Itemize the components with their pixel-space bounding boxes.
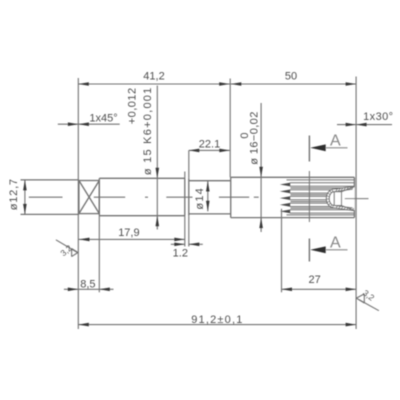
svg-text:1x30°: 1x30° xyxy=(363,111,393,123)
dimension 17,9 arrows xyxy=(79,238,185,242)
svg-text:50: 50 xyxy=(285,71,297,83)
shaft left section centerline dash xyxy=(29,196,63,198)
center hole pilot rectangle xyxy=(334,192,341,206)
shaft section diameter 15 left face xyxy=(98,178,100,215)
svg-text:27: 27 xyxy=(308,274,320,286)
svg-text:17,9: 17,9 xyxy=(118,227,139,239)
step face at start of diameter 16 section xyxy=(230,177,232,217)
extension line at diameter 15/16 step for 41,2 and 50 xyxy=(229,79,231,178)
svg-text:91,2±0,1: 91,2±0,1 xyxy=(191,314,243,326)
knurled box diagonal 1 xyxy=(79,181,99,214)
knurled box section outline xyxy=(79,181,99,214)
dimension 8,5 line xyxy=(64,288,114,290)
dimension 41,2 line xyxy=(78,83,230,85)
shaft section diameter 15 bottom edge xyxy=(99,215,185,217)
undercut top band outlines xyxy=(334,186,355,189)
dimension 17,9 line xyxy=(78,238,185,240)
diameter 12,7 dimension line xyxy=(24,180,26,215)
svg-text:1.2: 1.2 xyxy=(173,247,188,259)
diameter 15 K6 arrows xyxy=(156,168,160,226)
chamfer 1x45 dimension line xyxy=(58,123,120,125)
undercut feature silhouette at shaft right end xyxy=(326,186,354,211)
shaft centerline dashes xyxy=(94,196,259,198)
svg-text:ø 16−0,02: ø 16−0,02 xyxy=(248,111,260,164)
dimension 27 line xyxy=(282,288,357,290)
chamfer 1x30 dimension line xyxy=(337,124,392,126)
dimension 8,5 arrows xyxy=(68,288,110,292)
svg-text:A: A xyxy=(330,234,341,251)
dimension 50 line xyxy=(230,83,356,85)
svg-text:41,2: 41,2 xyxy=(143,71,164,83)
svg-text:3,2: 3,2 xyxy=(361,288,377,303)
diameter 12,7 arrows xyxy=(23,180,27,215)
shaft section diameter 14 top edge xyxy=(189,180,231,182)
extension line for 27 at spline start xyxy=(281,209,283,292)
extension line groove right wall for 22.1 and 1.2 xyxy=(185,150,189,246)
spline teeth spikes xyxy=(280,183,290,214)
countersink V line bottom xyxy=(342,206,355,211)
undercut bottom band outlines xyxy=(334,208,355,211)
dimension 91,2 line xyxy=(78,324,356,326)
undercut outer arc outline xyxy=(326,189,333,208)
extension line at shaft right end xyxy=(355,77,357,330)
diameter 14 dimension line xyxy=(207,181,209,211)
shaft section diameter 14 bottom edge xyxy=(189,213,231,215)
surface roughness symbol 3,2 left xyxy=(56,240,78,258)
shaft left section diameter 12,7 bottom edge xyxy=(21,213,79,215)
dimension 1.2 lines xyxy=(171,243,203,245)
svg-text:22.1: 22.1 xyxy=(199,138,220,150)
dimension 91,2 arrows xyxy=(78,323,356,327)
undercut hatching xyxy=(326,187,353,211)
countersink V line top xyxy=(342,187,355,192)
surface roughness symbol 3,2 right xyxy=(356,288,379,311)
dimension 27 arrows xyxy=(282,288,357,292)
chamfer 1x30 arrows xyxy=(346,123,367,127)
diameter 16 dimension line xyxy=(260,103,262,232)
dimension 22.1 arrows xyxy=(189,149,230,153)
shaft section diameter 15 top edge xyxy=(99,177,185,179)
groove left wall xyxy=(184,178,186,215)
section line A-A xyxy=(308,136,310,262)
chamfer 1x45 arrows xyxy=(68,122,89,126)
svg-text:ø14: ø14 xyxy=(194,187,206,210)
spline tooth profile lines xyxy=(287,180,355,215)
svg-text:8,5: 8,5 xyxy=(80,278,95,290)
dimension 22.1 line xyxy=(189,149,230,151)
extension line groove left wall for 17,9 and 1.2 xyxy=(184,216,186,247)
svg-text:ø12,7: ø12,7 xyxy=(8,178,20,210)
dimension 41,2 arrows xyxy=(78,82,229,86)
shaft section diameter 16 top edge xyxy=(231,176,355,178)
extension line at shaft left end face xyxy=(77,78,79,329)
shaft left section diameter 12,7 top edge xyxy=(21,179,79,181)
center hole centerline stub xyxy=(345,198,369,200)
shaft right end face xyxy=(353,177,355,217)
svg-text:+0,012: +0,012 xyxy=(126,87,138,124)
diameter 16 arrows xyxy=(259,167,263,228)
undercut inner arc outline xyxy=(329,192,334,206)
section arrow bottom xyxy=(310,246,347,253)
diameter 15 K6 dimension line xyxy=(156,86,158,230)
section arrow top xyxy=(310,144,347,151)
diameter 14 arrows xyxy=(206,181,210,211)
svg-text:1x45°: 1x45° xyxy=(89,112,117,124)
svg-text:ø 15 K6+0,001: ø 15 K6+0,001 xyxy=(142,86,154,175)
dimension 50 arrows xyxy=(231,82,356,86)
extension line at box right edge for 8,5 xyxy=(98,216,100,293)
shaft section diameter 16 bottom edge xyxy=(231,217,355,219)
groove right wall xyxy=(188,178,190,215)
svg-text:A: A xyxy=(330,132,341,149)
knurled box diagonal 2 xyxy=(79,181,99,214)
dimension 1.2 arrows xyxy=(174,243,199,247)
